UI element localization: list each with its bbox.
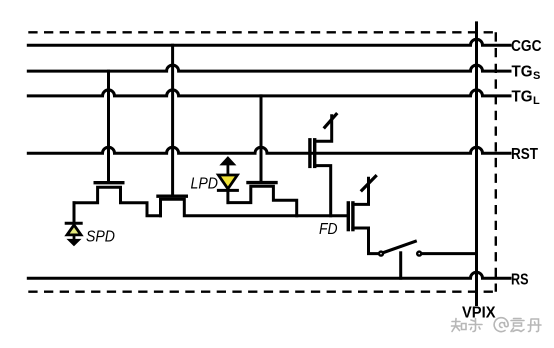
svg-text:FD: FD [319, 221, 338, 238]
transistor RST gate bar [308, 140, 311, 167]
photodiode SPD down arrow [73, 235, 76, 240]
svg-text:L: L [533, 95, 540, 107]
svg-text:VPIX: VPIX [462, 305, 496, 322]
transistor M3 channel and source/drain [228, 186, 297, 216]
switch pole contact circle [379, 252, 383, 256]
transistor SF gate bar [347, 203, 350, 230]
transistor M2 (CGC gate) gate bar [158, 194, 186, 197]
svg-text:RS: RS [511, 271, 529, 288]
wire gate line V3 from TGL [260, 96, 263, 181]
transistor SF source wire down [353, 228, 378, 254]
transistor M1 (TGS transfer gate) gate bar [95, 181, 123, 184]
wire CGC bus [28, 39, 510, 45]
wire RS control tick [399, 253, 402, 278]
transistor SF drain wire up [353, 178, 369, 204]
transistor RST drain wire up [315, 116, 332, 142]
svg-text:TG: TG [512, 89, 533, 106]
wire RS bus [28, 272, 510, 278]
transistor RST channel bar [313, 140, 316, 167]
dashed border bottom [28, 291, 496, 293]
switch throw contact circle [417, 252, 421, 256]
dashed border right [495, 32, 497, 291]
wire TGS bus [28, 65, 510, 71]
svg-text:SPD: SPD [86, 229, 115, 246]
wire VPIX vertical rail [475, 23, 478, 305]
wire gate line V1 from TGS [107, 71, 110, 181]
photodiode LPD stem [226, 190, 229, 202]
wire RST bus [28, 147, 510, 153]
svg-text:RST: RST [511, 146, 538, 163]
photodiode LPD up arrow [221, 157, 236, 165]
wire gate line V2 from CGC [171, 45, 174, 195]
photodiode LPD cathode bar [218, 189, 237, 192]
watermark 知乎 @夏丹 [452, 318, 542, 332]
photodiode LPD triangle [218, 175, 237, 189]
transistor RST drain lever [325, 114, 336, 127]
dashed border top [28, 31, 496, 33]
svg-text:LPD: LPD [191, 175, 219, 192]
transistor M2 channel and FD rail [161, 199, 349, 216]
transistor SF drain lever [362, 176, 376, 190]
transistor M1 channel and source/drain [74, 187, 161, 223]
photodiode SPD cathode bar [66, 222, 81, 225]
photodiode SPD triangle [67, 225, 81, 235]
svg-text:TG: TG [512, 64, 533, 81]
photodiode SPD wire [73, 203, 76, 223]
svg-text:CGC: CGC [511, 38, 542, 55]
wire switch to VPIX rail [422, 252, 477, 255]
switch lever [383, 241, 415, 252]
wire TGL bus [28, 90, 510, 96]
svg-text:S: S [533, 70, 540, 82]
transistor SF channel bar [351, 203, 354, 230]
transistor RST source wire down to FD [315, 166, 331, 216]
transistor M3 (TGL transfer gate) gate bar [248, 181, 276, 184]
